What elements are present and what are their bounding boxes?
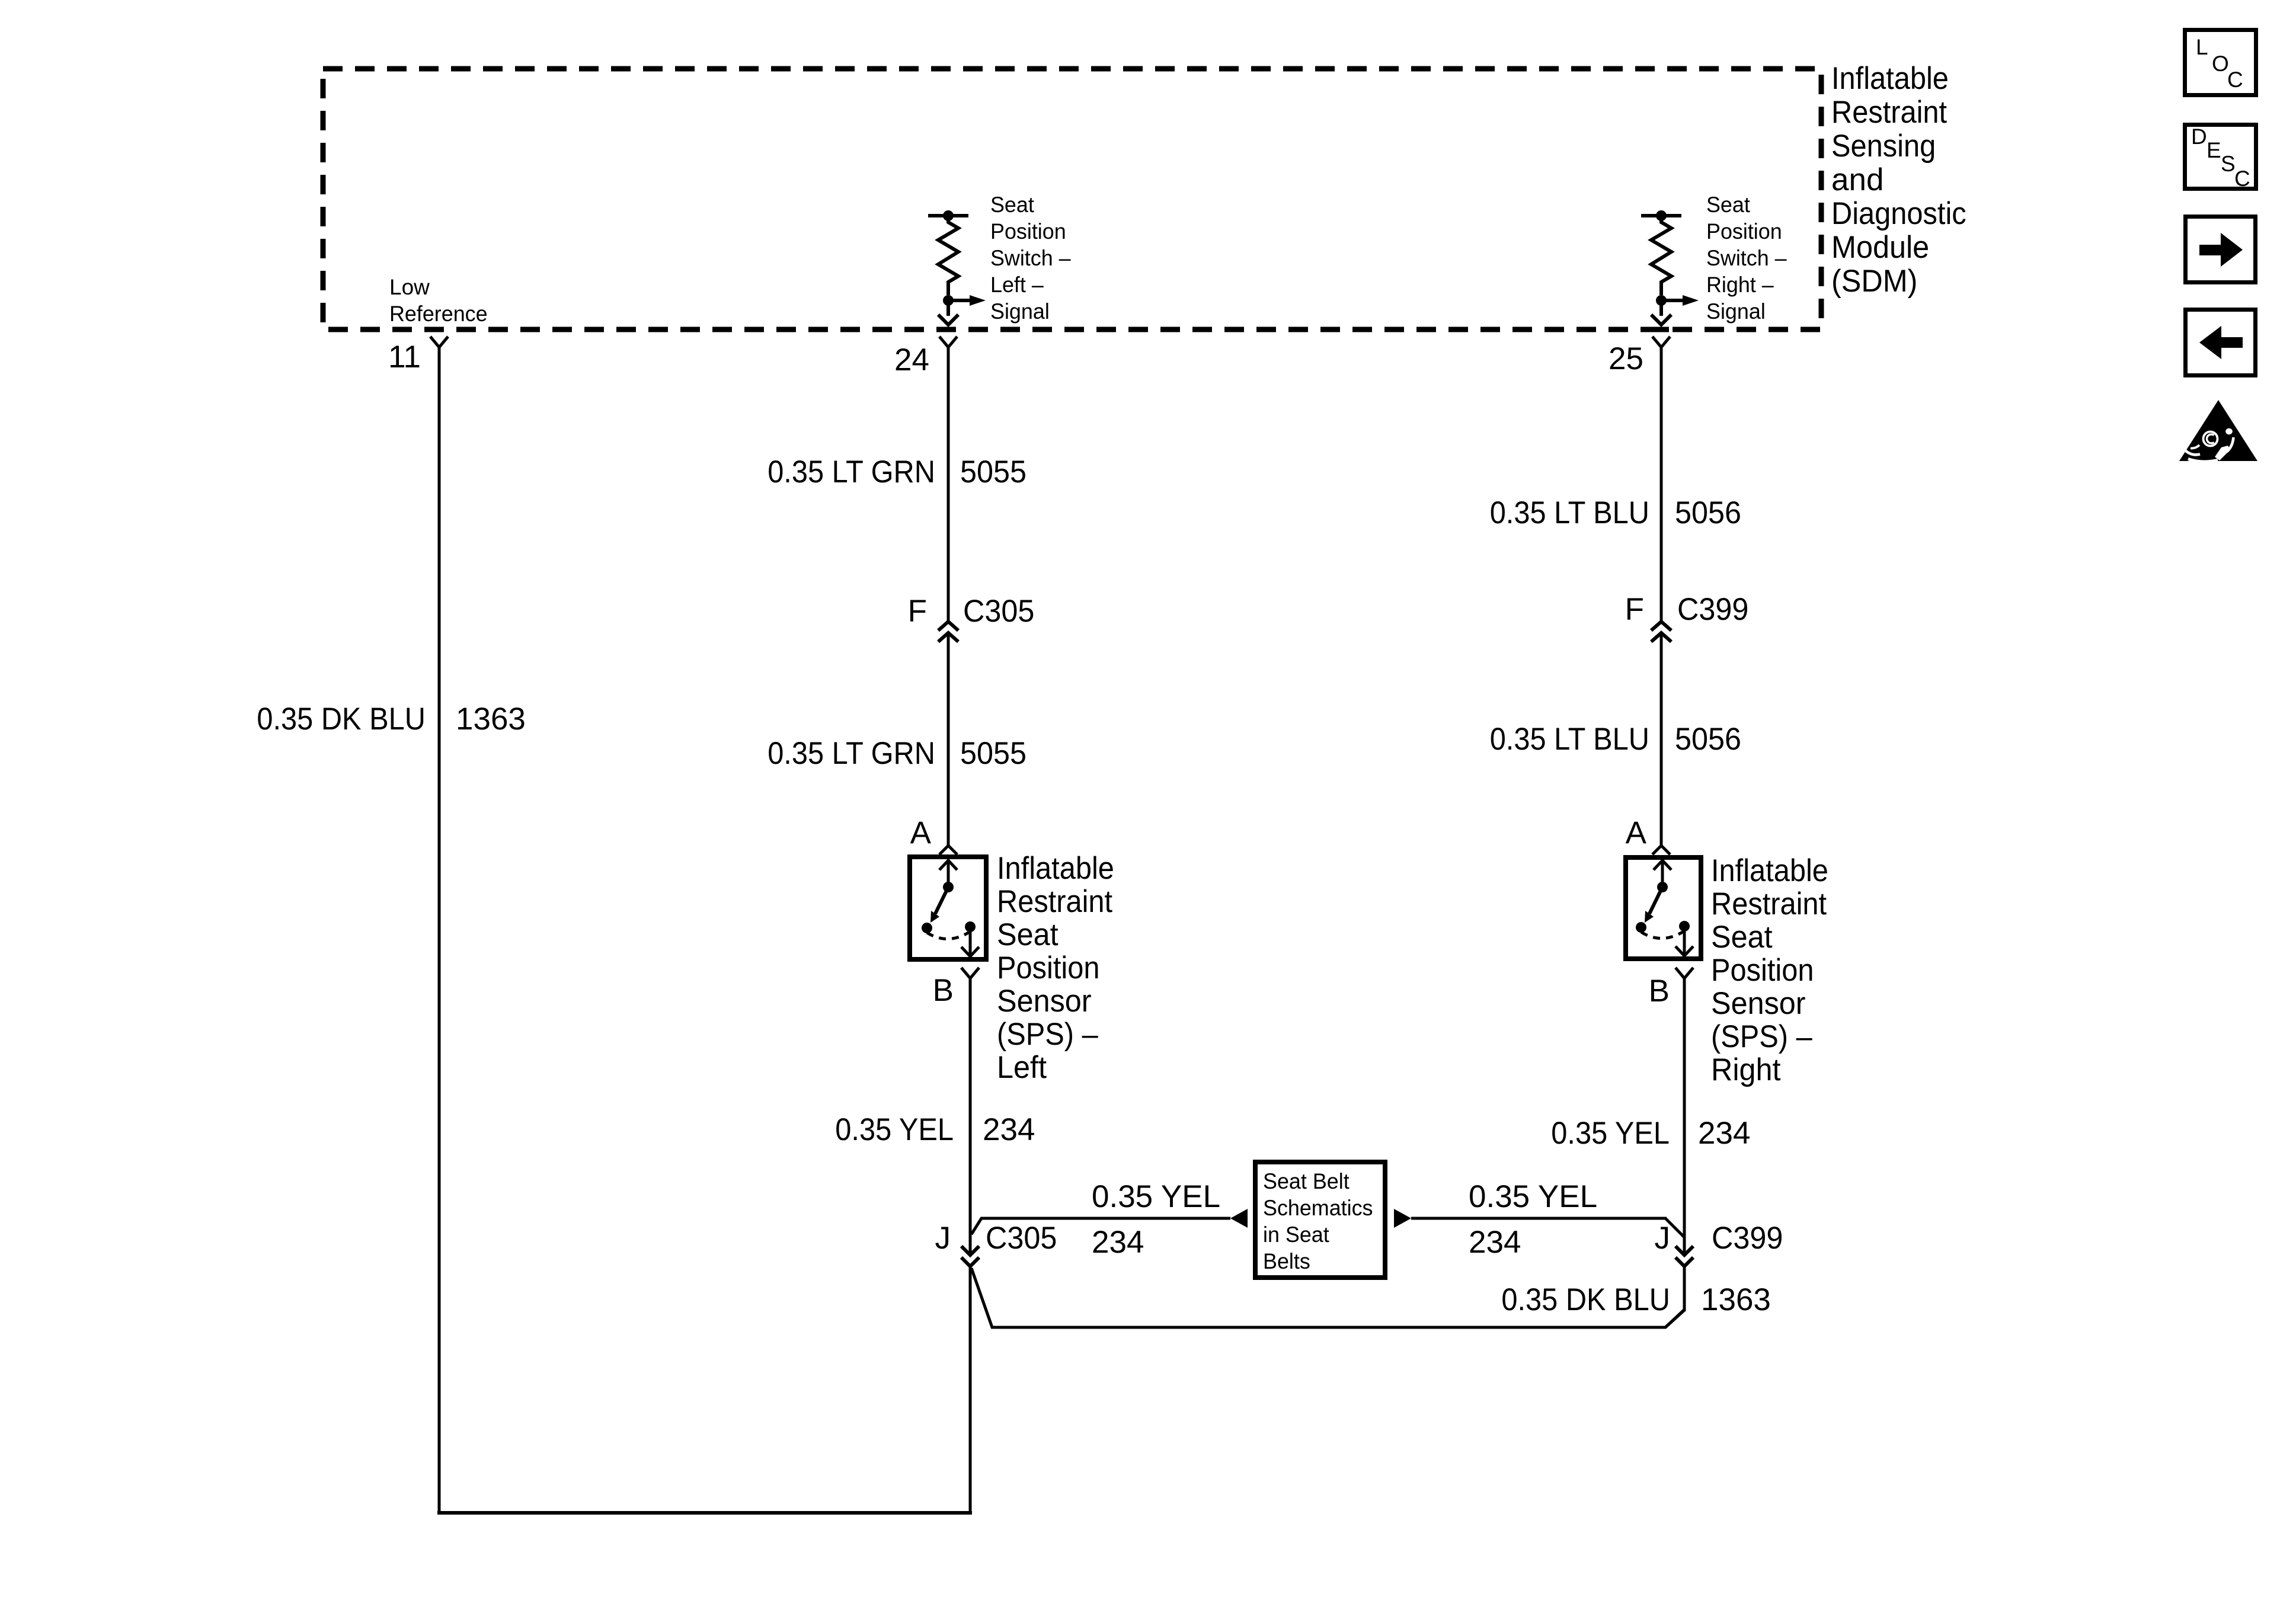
svg-text:C: C <box>2234 167 2250 191</box>
svg-text:O: O <box>2212 52 2229 76</box>
svg-text:C: C <box>2227 68 2243 92</box>
svg-text:5055: 5055 <box>960 736 1027 771</box>
svg-text:Switch –: Switch – <box>1706 246 1787 270</box>
svg-text:Inflatable: Inflatable <box>1711 853 1828 888</box>
svg-text:5056: 5056 <box>1675 722 1741 757</box>
svg-text:Seat: Seat <box>1711 920 1773 955</box>
svg-text:in Seat: in Seat <box>1263 1222 1329 1247</box>
svg-text:0.35 LT GRN: 0.35 LT GRN <box>768 454 935 489</box>
svg-text:(SPS) –: (SPS) – <box>1711 1019 1812 1054</box>
svg-text:0.35 YEL: 0.35 YEL <box>835 1112 954 1147</box>
svg-text:1363: 1363 <box>1701 1282 1771 1317</box>
svg-text:C399: C399 <box>1712 1221 1783 1256</box>
svg-text:0.35 DK BLU: 0.35 DK BLU <box>257 702 426 737</box>
svg-text:Inflatable: Inflatable <box>997 851 1114 886</box>
svg-text:J: J <box>1655 1221 1671 1256</box>
svg-text:A: A <box>910 815 932 850</box>
svg-text:25: 25 <box>1609 341 1643 376</box>
svg-text:Reference: Reference <box>389 302 488 326</box>
svg-text:Left: Left <box>997 1050 1047 1085</box>
svg-text:0.35 LT BLU: 0.35 LT BLU <box>1490 722 1649 757</box>
svg-text:Position: Position <box>1706 219 1782 244</box>
svg-text:B: B <box>933 973 954 1008</box>
svg-text:Inflatable: Inflatable <box>1831 61 1949 96</box>
svg-text:5056: 5056 <box>1675 495 1741 530</box>
svg-text:F: F <box>1625 592 1644 627</box>
svg-text:B: B <box>1649 974 1670 1009</box>
svg-text:Signal: Signal <box>990 299 1050 324</box>
svg-text:234: 234 <box>1469 1225 1521 1260</box>
svg-text:0.35 YEL: 0.35 YEL <box>1469 1179 1597 1214</box>
svg-text:Module: Module <box>1831 230 1929 265</box>
svg-text:Sensor: Sensor <box>1711 986 1806 1021</box>
svg-text:D: D <box>2191 124 2207 149</box>
svg-text:(SDM): (SDM) <box>1831 264 1917 299</box>
svg-text:234: 234 <box>1698 1116 1750 1151</box>
svg-text:0.35 LT GRN: 0.35 LT GRN <box>768 736 935 771</box>
svg-text:234: 234 <box>1092 1225 1144 1260</box>
svg-text:Seat: Seat <box>990 193 1034 217</box>
svg-text:C399: C399 <box>1677 592 1748 627</box>
svg-text:0.35 LT BLU: 0.35 LT BLU <box>1490 495 1649 530</box>
svg-text:and: and <box>1831 162 1884 197</box>
svg-text:S: S <box>2221 152 2236 176</box>
svg-text:0.35 YEL: 0.35 YEL <box>1551 1116 1670 1151</box>
svg-text:Position: Position <box>990 219 1066 244</box>
svg-text:Schematics: Schematics <box>1263 1196 1373 1220</box>
svg-text:Low: Low <box>389 275 430 299</box>
svg-text:Restraint: Restraint <box>1711 886 1827 921</box>
svg-text:(SPS) –: (SPS) – <box>997 1017 1098 1052</box>
svg-text:1363: 1363 <box>456 702 526 737</box>
svg-text:Diagnostic: Diagnostic <box>1831 196 1966 231</box>
svg-text:Right –: Right – <box>1706 273 1774 297</box>
svg-text:Sensing: Sensing <box>1831 129 1936 164</box>
svg-text:11: 11 <box>388 340 421 375</box>
svg-text:L: L <box>2196 35 2208 59</box>
svg-text:C305: C305 <box>963 594 1034 629</box>
svg-text:Seat: Seat <box>997 917 1059 952</box>
svg-text:Seat: Seat <box>1706 193 1750 217</box>
svg-text:Belts: Belts <box>1263 1249 1310 1273</box>
svg-text:C305: C305 <box>986 1221 1057 1256</box>
svg-text:Signal: Signal <box>1706 299 1766 324</box>
svg-text:24: 24 <box>894 343 929 377</box>
svg-text:Sensor: Sensor <box>997 984 1092 1019</box>
svg-text:Restraint: Restraint <box>1831 95 1947 130</box>
svg-text:234: 234 <box>983 1112 1035 1147</box>
svg-text:0.35 DK BLU: 0.35 DK BLU <box>1501 1282 1670 1317</box>
svg-text:Seat Belt: Seat Belt <box>1263 1169 1350 1193</box>
svg-text:0.35 YEL: 0.35 YEL <box>1092 1179 1220 1214</box>
svg-text:Position: Position <box>997 950 1100 985</box>
svg-text:5055: 5055 <box>960 454 1027 489</box>
svg-text:A: A <box>1626 815 1647 850</box>
svg-text:F: F <box>908 594 927 629</box>
svg-text:Restraint: Restraint <box>997 884 1112 919</box>
svg-text:Switch –: Switch – <box>990 246 1071 270</box>
svg-text:Position: Position <box>1711 953 1814 988</box>
svg-text:J: J <box>935 1221 951 1256</box>
svg-text:E: E <box>2207 138 2221 162</box>
svg-text:Right: Right <box>1711 1052 1781 1087</box>
svg-text:Left –: Left – <box>990 273 1044 297</box>
